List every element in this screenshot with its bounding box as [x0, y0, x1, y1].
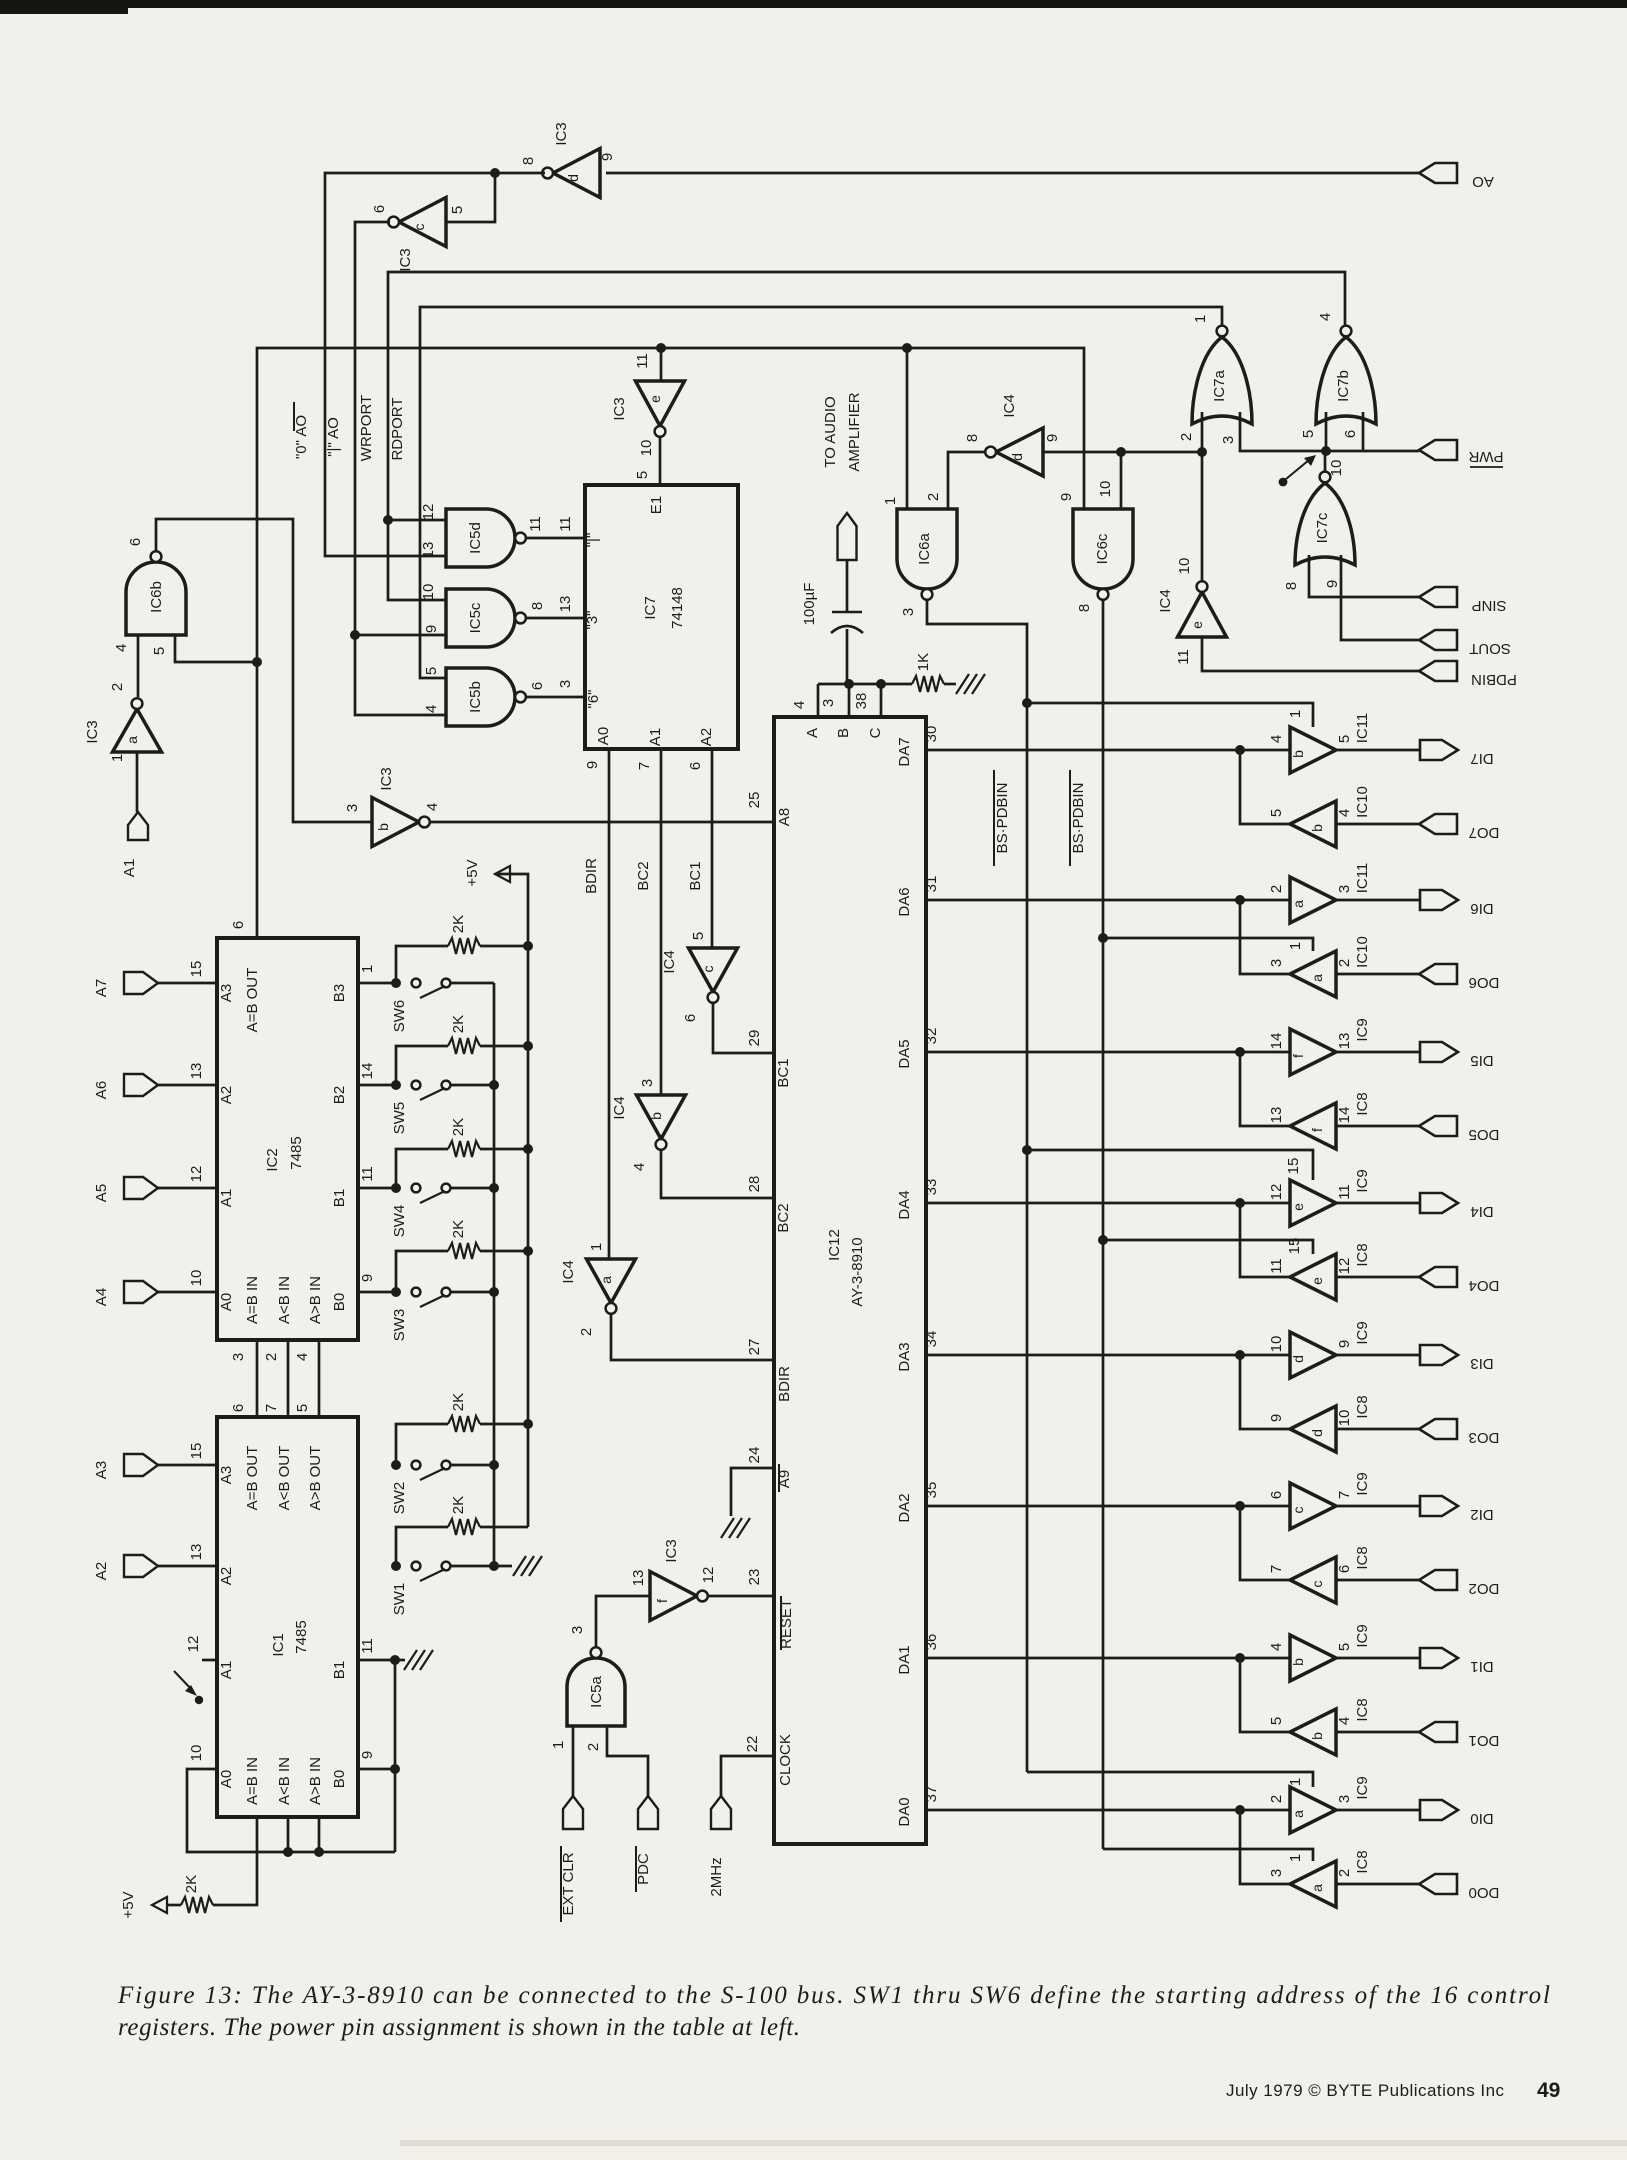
svg-text:Figure 13: The AY-3-8910 can b: Figure 13: The AY-3-8910 can be connecte…	[117, 1982, 1550, 2009]
svg-text:13: 13	[188, 1063, 205, 1080]
node B pin junction SW4	[391, 1183, 401, 1193]
svg-text:12: 12	[1268, 1184, 1285, 1201]
wire IC7a pin 3 input	[1240, 412, 1419, 451]
wire analog pin C	[880, 684, 883, 717]
svg-text:SW2: SW2	[391, 1482, 408, 1515]
svg-text:8: 8	[529, 602, 546, 610]
svg-text:9: 9	[1324, 580, 1341, 588]
svg-text:SW5: SW5	[391, 1102, 408, 1135]
svg-text:1: 1	[359, 965, 376, 973]
switch SW3	[412, 1288, 421, 1297]
svg-text:10: 10	[420, 584, 437, 601]
buffer DI6 IC11a	[1290, 877, 1336, 923]
svg-text:10: 10	[1097, 481, 1114, 498]
svg-text:BC1: BC1	[775, 1058, 792, 1087]
svg-text:a: a	[1290, 900, 1306, 908]
svg-text:IC11: IC11	[1354, 713, 1371, 744]
wire IC4e input from PDBIN	[1202, 637, 1419, 671]
wire enable DO4 from line B	[1103, 1240, 1313, 1254]
node line A top	[1022, 698, 1032, 708]
svg-text:PDC: PDC	[635, 1853, 652, 1885]
svg-text:3: 3	[1336, 885, 1353, 893]
ground IC1 B1	[404, 1650, 417, 1670]
svg-text:14: 14	[359, 1063, 376, 1080]
inverter IC4b	[637, 1095, 686, 1139]
svg-text:3: 3	[1220, 436, 1237, 444]
svg-text:4: 4	[1336, 1717, 1353, 1725]
inverter IC4e	[1178, 592, 1227, 637]
connector DO1	[1419, 1722, 1457, 1742]
svg-text:A0: A0	[595, 727, 612, 745]
ground 1K	[956, 674, 969, 694]
svg-text:37: 37	[923, 1786, 940, 1803]
wire SW3 to ground rail	[450, 1291, 494, 1294]
connector DI1	[1420, 1648, 1458, 1668]
svg-text:b: b	[375, 823, 391, 831]
wire DA1 from IC12 pin 36	[926, 1657, 1290, 1660]
svg-text:IC5b: IC5b	[467, 681, 484, 713]
nand IC5c	[446, 589, 515, 647]
wire A7 to IC2 pin 15	[158, 982, 217, 985]
node BS to IC6b pin 5	[252, 657, 262, 667]
ground A9	[721, 1518, 734, 1538]
svg-text:6: 6	[230, 1404, 247, 1412]
svg-text:1: 1	[1192, 315, 1209, 323]
wire IC4e output stub	[1201, 452, 1204, 582]
IC2 7485 box	[217, 938, 358, 1340]
wire A5 to IC2 pin 12	[158, 1187, 217, 1190]
buffer DI2 IC9c	[1290, 1483, 1336, 1529]
svg-text:A4: A4	[93, 1288, 110, 1306]
wire SW1 to ground rail	[450, 1565, 494, 1568]
node B pin junction SW3	[391, 1287, 401, 1297]
nand IC5d	[446, 509, 515, 567]
inverter IC4a	[587, 1259, 636, 1303]
svg-text:9: 9	[1044, 434, 1061, 442]
svg-text:9: 9	[359, 1274, 376, 1282]
svg-text:6: 6	[1268, 1491, 1285, 1499]
svg-text:EXT CLR: EXT CLR	[560, 1852, 577, 1915]
wire enable DI7 from line A	[1027, 703, 1313, 727]
wire WRPORT line (IC7b output)	[388, 272, 1345, 600]
svg-text:A2: A2	[218, 1086, 235, 1104]
wire A3 to IC1 pin 15	[158, 1464, 217, 1467]
annotation arrow at IC1 pin 12	[174, 1671, 193, 1691]
svg-text:5: 5	[423, 667, 440, 675]
connector DO2	[1419, 1570, 1457, 1590]
wire IC6a pin 2 from IC4d output	[948, 452, 990, 509]
svg-text:DA4: DA4	[896, 1190, 913, 1219]
svg-text:4: 4	[424, 803, 441, 811]
node pin B	[844, 679, 854, 689]
svg-text:4: 4	[1336, 809, 1353, 817]
connector PDBIN	[1419, 661, 1457, 681]
wire IC7b pin 5 input	[1325, 412, 1328, 451]
wire IC5d pin 12 stub	[388, 519, 446, 522]
inverter IC3d	[553, 149, 600, 198]
svg-text:2: 2	[1268, 1795, 1285, 1803]
svg-text:DO0: DO0	[1469, 1884, 1500, 1901]
connector PDC	[638, 1796, 658, 1829]
wire IC3a input from A1	[136, 752, 139, 812]
switch SW6	[412, 979, 421, 988]
wire DA5 to DO5 buffer output	[1240, 1052, 1290, 1126]
wire IC5a pin 2 from PDC	[607, 1726, 648, 1796]
nor IC7a	[1192, 337, 1252, 424]
svg-text:2: 2	[585, 1743, 602, 1751]
svg-text:IC9: IC9	[1354, 1018, 1371, 1041]
svg-text:1: 1	[550, 1741, 567, 1749]
wire DA6 from IC12 pin 31	[926, 899, 1290, 902]
connector EXT CLR	[563, 1796, 583, 1829]
resistor 1K	[912, 676, 944, 692]
connector DI3	[1420, 1345, 1458, 1365]
svg-text:IC11: IC11	[1354, 863, 1371, 894]
wire B1 to ground symbol	[395, 1659, 405, 1662]
svg-text:2K: 2K	[450, 1220, 467, 1238]
resistor 2K SW3	[396, 1251, 448, 1292]
svg-text:IC7: IC7	[642, 596, 659, 619]
buffer DO0 IC8a	[1290, 1861, 1336, 1907]
svg-text:1: 1	[1287, 1854, 1304, 1862]
svg-text:10: 10	[1268, 1336, 1285, 1353]
svg-text:2: 2	[1178, 433, 1195, 441]
wire DI1 buffer output	[1336, 1657, 1419, 1660]
svg-text:1: 1	[1287, 1778, 1304, 1786]
svg-text:b: b	[648, 1112, 664, 1120]
svg-text:2K: 2K	[450, 1496, 467, 1514]
switch SW2	[412, 1461, 421, 1470]
svg-text:DI6: DI6	[1470, 900, 1493, 917]
connector A3	[124, 1454, 158, 1476]
svg-text:A6: A6	[93, 1081, 110, 1099]
svg-text:33: 33	[923, 1179, 940, 1196]
svg-text:SOUT: SOUT	[1469, 640, 1511, 657]
svg-text:A1: A1	[121, 859, 138, 877]
node ground rail	[489, 1460, 499, 1470]
svg-text:DA2: DA2	[896, 1493, 913, 1522]
inverter IC3c	[399, 198, 446, 247]
svg-text:10: 10	[1176, 558, 1193, 575]
buffer DI4 IC9e	[1290, 1180, 1336, 1226]
svg-text:DO3: DO3	[1469, 1429, 1500, 1446]
svg-text:27: 27	[746, 1339, 763, 1356]
wire IC5a pin 1 from EXT CLR	[572, 1726, 575, 1796]
svg-text:2: 2	[109, 683, 126, 691]
svg-text:IC6c: IC6c	[1094, 533, 1111, 564]
inverter IC3a	[113, 709, 162, 752]
wire DI4 buffer output	[1336, 1202, 1419, 1205]
svg-text:c: c	[700, 966, 716, 973]
svg-text:49: 49	[1537, 2079, 1560, 2102]
svg-text:A1: A1	[218, 1189, 235, 1207]
svg-text:b: b	[1290, 1658, 1306, 1666]
svg-text:4: 4	[1268, 1643, 1285, 1651]
svg-text:SINP: SINP	[1471, 597, 1506, 614]
wire IC1 pin 11 B1 to ground rail	[358, 1659, 395, 1662]
node pin 2 ground	[283, 1847, 293, 1857]
svg-text:IC8: IC8	[1354, 1850, 1371, 1873]
resistor 2K SW2	[396, 1424, 448, 1465]
svg-text:A5: A5	[93, 1184, 110, 1202]
svg-text:2MHz: 2MHz	[708, 1857, 725, 1896]
svg-text:d: d	[1290, 1355, 1306, 1363]
connector DI6	[1420, 890, 1458, 910]
svg-text:d: d	[1009, 453, 1025, 461]
wire DO6 buffer input	[1336, 973, 1419, 976]
node BS to IC3e input	[656, 343, 666, 353]
svg-text:35: 35	[923, 1482, 940, 1499]
wire IC4a output to IC12 pin 27 BDIR	[611, 1314, 774, 1360]
svg-text:3: 3	[900, 608, 917, 616]
wire enable DI4 from line A	[1027, 1150, 1313, 1180]
wire DA3 from IC12 pin 34	[926, 1354, 1290, 1357]
wire DA3 to DO3 buffer output	[1240, 1355, 1290, 1429]
switch SW4	[412, 1184, 421, 1193]
svg-text:1: 1	[882, 497, 899, 505]
resistor 2K SW5	[396, 1046, 448, 1085]
svg-text:IC7c: IC7c	[1314, 512, 1331, 543]
svg-text:IC3: IC3	[397, 248, 414, 271]
svg-text:IC4: IC4	[1157, 589, 1174, 612]
wire SW4 to ground rail	[450, 1187, 494, 1190]
svg-text:A1: A1	[218, 1661, 235, 1679]
svg-text:IC5a: IC5a	[588, 1676, 605, 1708]
svg-text:B1: B1	[331, 1189, 348, 1207]
wire IC6b pin 6 output to IC3b input	[156, 519, 372, 822]
inverter IC3e	[636, 381, 685, 426]
connector A6	[124, 1074, 158, 1096]
svg-text:A=B IN: A=B IN	[244, 1757, 261, 1805]
svg-text:IC8: IC8	[1354, 1698, 1371, 1721]
node +5V rail SW2	[523, 1419, 533, 1429]
wire IC3e input stub	[660, 348, 663, 381]
svg-text:DI1: DI1	[1470, 1658, 1493, 1675]
wire BC1 from IC7 pin 6	[711, 749, 714, 948]
wire IC2 pin 9 B0 to switch	[358, 1291, 395, 1294]
wire IC6b pin 5 input	[175, 635, 257, 662]
svg-text:"|" AO: "|" AO	[325, 417, 342, 457]
svg-text:13: 13	[1268, 1107, 1285, 1124]
connector A5	[124, 1177, 158, 1199]
wire IC7c pin 10 output to node	[1324, 451, 1327, 472]
wire node to IC3c input	[446, 173, 495, 222]
connector DI5	[1420, 1042, 1458, 1062]
node B pin junction SW2	[391, 1460, 401, 1470]
svg-text:IC9: IC9	[1354, 1169, 1371, 1192]
connector SINP	[1419, 587, 1457, 607]
svg-text:BS·PDBIN: BS·PDBIN	[994, 783, 1011, 854]
wire DA1 to DO1 buffer output	[1240, 1658, 1290, 1732]
wire IC7a pin 2 stub	[1201, 412, 1204, 452]
node B pin junction SW5	[391, 1080, 401, 1090]
svg-text:IC7b: IC7b	[1335, 370, 1352, 402]
svg-text:A>B OUT: A>B OUT	[307, 1446, 324, 1511]
scan streak bottom	[400, 2140, 1627, 2146]
wire DO7 buffer input	[1336, 823, 1419, 826]
buffer DO5 IC8f	[1290, 1103, 1336, 1149]
svg-text:2K: 2K	[450, 1393, 467, 1411]
wire DA6 to DO6 buffer output	[1240, 900, 1290, 974]
svg-text:a: a	[1309, 974, 1325, 982]
wire enable DI0 from line A	[1027, 1772, 1313, 1787]
svg-text:A: A	[804, 728, 821, 738]
wire DI3 buffer output	[1336, 1354, 1419, 1357]
IC7 74148 box	[585, 485, 738, 749]
svg-text:30: 30	[923, 726, 940, 743]
node BS to IC6a pin 1	[902, 343, 912, 353]
svg-text:11: 11	[527, 516, 544, 532]
svg-text:DO7: DO7	[1469, 824, 1500, 841]
wire SW5 to ground rail	[450, 1084, 494, 1087]
svg-text:e: e	[1290, 1203, 1306, 1211]
node pin C	[876, 679, 886, 689]
svg-text:3: 3	[344, 804, 361, 812]
svg-text:5: 5	[690, 932, 707, 940]
svg-text:9: 9	[423, 625, 440, 633]
svg-text:13: 13	[188, 1544, 205, 1561]
svg-text:DI5: DI5	[1470, 1052, 1493, 1069]
svg-text:38: 38	[853, 693, 870, 710]
svg-text:b: b	[1290, 750, 1306, 758]
svg-text:4: 4	[294, 1353, 311, 1361]
connector 2MHz	[711, 1796, 731, 1829]
svg-text:B3: B3	[331, 984, 348, 1002]
svg-text:4: 4	[1268, 735, 1285, 743]
svg-text:3: 3	[569, 1626, 586, 1634]
svg-text:7: 7	[1336, 1491, 1353, 1499]
svg-text:13: 13	[420, 542, 437, 559]
wire DA0 from IC12 pin 37	[926, 1809, 1290, 1812]
svg-text:4: 4	[1317, 313, 1334, 321]
svg-text:b: b	[1309, 824, 1325, 832]
svg-text:9: 9	[1058, 493, 1075, 501]
svg-text:DA5: DA5	[896, 1039, 913, 1068]
node +5V rail SW6	[523, 941, 533, 951]
node DA4 junction	[1235, 1198, 1245, 1208]
svg-text:3: 3	[557, 680, 574, 688]
wire IC2 pin 11 B1 to switch	[358, 1187, 395, 1190]
svg-text:DI0: DI0	[1470, 1810, 1493, 1827]
svg-text:36: 36	[923, 1634, 940, 1651]
node DA0 junction	[1235, 1805, 1245, 1815]
svg-text:a: a	[598, 1276, 614, 1284]
connector A2	[124, 1555, 158, 1577]
svg-text:IC9: IC9	[1354, 1776, 1371, 1799]
svg-text:+5V: +5V	[120, 1891, 137, 1918]
wire DI7 buffer output	[1336, 749, 1419, 752]
wire DO2 buffer input	[1336, 1579, 1419, 1582]
svg-text:IC3: IC3	[611, 397, 628, 420]
svg-text:11: 11	[359, 1166, 376, 1182]
node DA5 junction	[1235, 1047, 1245, 1057]
wire DA4 from IC12 pin 33	[926, 1202, 1290, 1205]
node DA7 junction	[1235, 745, 1245, 755]
wire IC5c pin 9 stub	[355, 634, 446, 637]
svg-text:A<B IN: A<B IN	[276, 1757, 293, 1805]
svg-text:11: 11	[1175, 649, 1192, 665]
svg-text:2: 2	[1268, 885, 1285, 893]
connector DO6	[1419, 964, 1457, 984]
svg-text:29: 29	[746, 1030, 763, 1047]
svg-text:AMPLIFIER: AMPLIFIER	[846, 392, 863, 471]
svg-text:1: 1	[109, 754, 126, 762]
svg-text:3: 3	[639, 1079, 656, 1087]
svg-text:2: 2	[1336, 1869, 1353, 1877]
svg-text:A7: A7	[93, 979, 110, 997]
resistor 2K SW4	[396, 1149, 448, 1188]
node PWR junction	[1321, 446, 1331, 456]
svg-text:7: 7	[263, 1404, 280, 1412]
wire IC3d output to node	[325, 173, 545, 556]
svg-text:IC4: IC4	[560, 1260, 577, 1283]
svg-text:BDIR: BDIR	[583, 858, 600, 894]
svg-text:13: 13	[1336, 1033, 1353, 1050]
svg-text:AO: AO	[1472, 173, 1494, 190]
svg-text:12: 12	[188, 1166, 205, 1183]
connector A7	[124, 972, 158, 994]
connector DI0	[1420, 1800, 1458, 1820]
svg-text:e: e	[1189, 621, 1205, 629]
scan edge top bar	[0, 0, 1627, 8]
wire 2MHz to IC12 pin 22 CLOCK	[721, 1756, 774, 1796]
svg-text:a: a	[1290, 1810, 1306, 1818]
svg-text:3: 3	[1268, 1869, 1285, 1877]
svg-text:IC12: IC12	[826, 1229, 843, 1261]
svg-text:IC5c: IC5c	[467, 602, 484, 633]
svg-text:4: 4	[631, 1163, 648, 1171]
svg-text:f: f	[1309, 1128, 1325, 1132]
switch SW1	[412, 1562, 421, 1571]
wire 1K to ground	[944, 683, 956, 686]
svg-text:9: 9	[1336, 1340, 1353, 1348]
wire IC1 pin 10 A0 ground loop	[187, 1769, 395, 1852]
svg-text:A2: A2	[93, 1562, 110, 1580]
wire IC6c pin 10 stub	[1120, 452, 1123, 509]
annotation arrow at PWR node	[1279, 478, 1288, 487]
wire SW2 to ground rail	[450, 1464, 494, 1467]
nand IC5a	[567, 1658, 625, 1726]
connector DO4	[1419, 1267, 1457, 1287]
svg-text:B0: B0	[331, 1293, 348, 1311]
wire +5V rail	[495, 874, 528, 1527]
svg-text:3: 3	[1268, 959, 1285, 967]
svg-text:2: 2	[1336, 959, 1353, 967]
+5V arrow bottom left	[152, 1897, 167, 1913]
wire IC2-IC1 cascade pins	[256, 1340, 259, 1417]
svg-text:C: C	[867, 727, 884, 738]
wire DA7 from IC12 pin 30	[926, 749, 1290, 752]
svg-text:A8: A8	[776, 808, 793, 826]
wire DA0 to DO0 buffer output	[1240, 1810, 1290, 1884]
svg-text:3: 3	[230, 1353, 247, 1361]
svg-text:5: 5	[1300, 430, 1317, 438]
svg-text:DO6: DO6	[1469, 974, 1500, 991]
svg-text:7485: 7485	[293, 1620, 310, 1653]
capacitor 100uF	[846, 560, 849, 612]
svg-text:24: 24	[746, 1447, 763, 1464]
wire switch ground rail	[494, 983, 512, 1566]
wire BDIR from IC7 pin 9	[608, 749, 611, 1259]
wire BC2 from IC7 pin 7	[660, 749, 663, 1095]
svg-text:5: 5	[1268, 1717, 1285, 1725]
svg-text:RDPORT: RDPORT	[389, 397, 406, 460]
svg-text:IC7a: IC7a	[1211, 370, 1228, 402]
svg-text:3: 3	[820, 699, 837, 707]
svg-text:"6": "6"	[585, 690, 602, 709]
wire SW6 to ground rail	[450, 982, 494, 985]
svg-text:e: e	[1309, 1277, 1325, 1285]
